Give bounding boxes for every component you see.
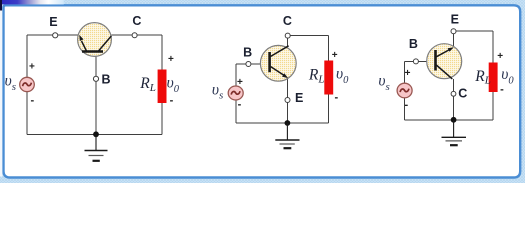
node E terminal (53, 33, 58, 38)
node C terminal (285, 33, 290, 38)
left margin strip (0, 11, 2, 177)
svg-text:-: - (334, 91, 338, 103)
svg-text:E: E (49, 15, 57, 29)
svg-text:C: C (458, 86, 467, 100)
node E terminal (285, 98, 290, 103)
wire base B vertical (95, 56, 97, 134)
svg-text:B: B (243, 46, 252, 60)
slide content panel frame (4, 5, 521, 177)
top decorative gradient bar (2, 0, 64, 4)
wire top (C to load) (288, 34, 329, 36)
node B terminal (246, 62, 251, 67)
wire right vertical (load branch) (161, 35, 163, 134)
ground (442, 120, 467, 145)
wire B horizontal (236, 63, 261, 65)
wire left vertical (source branch) (26, 35, 28, 134)
node B terminal (413, 59, 418, 64)
node C terminal (132, 33, 137, 38)
svg-text:-: - (30, 94, 34, 106)
wire top-left (E branch) (27, 34, 78, 36)
node E terminal (451, 29, 456, 34)
svg-text:C: C (132, 14, 141, 28)
svg-text:+: + (497, 51, 503, 62)
transistor Q1 (78, 23, 112, 57)
junction (285, 120, 291, 126)
wire emitter vertical (287, 79, 289, 123)
svg-text:B: B (101, 72, 110, 86)
wire bottom (404, 119, 493, 121)
svg-text:+: + (405, 68, 411, 79)
svg-text:-: - (170, 94, 174, 106)
svg-text:E: E (295, 91, 303, 105)
wire collector vertical (287, 35, 289, 46)
svg-text:-: - (404, 99, 408, 111)
source Vs2 (228, 86, 243, 100)
resistor RL2 (324, 61, 333, 95)
source Vs1 (20, 77, 35, 91)
svg-text:+: + (29, 62, 35, 73)
svg-text:-: - (238, 98, 242, 110)
wire load vertical (328, 35, 330, 123)
wire collector vertical (452, 79, 454, 120)
transistor Q3 (427, 44, 462, 79)
wire emitter vertical (453, 31, 455, 47)
resistor RL3 (489, 63, 498, 93)
svg-text:-: - (500, 83, 504, 95)
transistor Q2 (260, 45, 296, 81)
ground (85, 134, 108, 161)
resistor RL1 (158, 70, 167, 104)
node C terminal (451, 91, 456, 96)
wire bottom (236, 122, 329, 124)
source Vs3 (397, 83, 412, 98)
wire left vertical (source branch) (403, 61, 405, 119)
svg-text:+: + (168, 54, 174, 65)
svg-text:B: B (409, 37, 418, 51)
svg-text:+: + (237, 77, 243, 88)
wire load vertical (492, 31, 494, 120)
wire top-right (C branch) (111, 34, 162, 36)
wire bottom (27, 133, 162, 135)
wire left vertical (source branch) (235, 64, 237, 123)
node B terminal (93, 76, 98, 81)
ground (275, 123, 299, 148)
svg-text:+: + (332, 50, 338, 61)
dark corner block (0, 0, 2, 11)
svg-text:E: E (451, 13, 459, 27)
wire B horizontal (404, 60, 427, 62)
wire top (E to load) (454, 30, 494, 32)
svg-text:C: C (283, 14, 292, 28)
junction (451, 117, 457, 123)
junction (93, 131, 99, 137)
slide background texture (0, 0, 525, 183)
